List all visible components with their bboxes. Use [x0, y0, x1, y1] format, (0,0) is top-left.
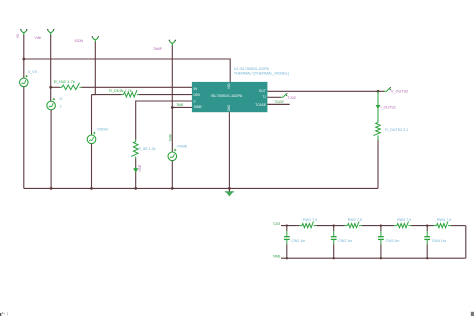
svg-text:RW2 7.5: RW2 7.5 — [348, 218, 362, 222]
svg-text:ISL75051S-102PA: ISL75051S-102PA — [211, 93, 243, 98]
svg-text:TAMB: TAMB — [169, 134, 173, 142]
wire U1 GND leg — [228, 112, 230, 188]
node TAMP terminal flag — [169, 40, 176, 46]
svg-text:TJ02: TJ02 — [287, 95, 296, 100]
wire thermal top rail seg1 — [317, 225, 345, 227]
wire R_OUTS2 upper lead — [377, 91, 379, 122]
vsource VTAMB — [168, 149, 177, 161]
capacitor CW2 — [331, 226, 337, 259]
wire W1 upper — [23, 35, 25, 78]
wire thermal top rail seg0 — [281, 225, 299, 227]
svg-text:VDDIN: VDDIN — [74, 38, 83, 43]
resistor RW1 — [302, 221, 313, 227]
svg-text:DEN: DEN — [194, 93, 200, 97]
wire RW3 lead L — [394, 225, 397, 227]
smudge bottom-left — [0, 312, 8, 316]
svg-text:R_IN2 1.7k: R_IN2 1.7k — [54, 79, 75, 84]
svg-text:TCASE: TCASE — [273, 222, 280, 226]
node V_OUTS2 flag — [384, 87, 391, 91]
junction bus/W1 — [22, 58, 25, 61]
junction bottom rail c2 — [333, 257, 335, 259]
junction VTAMB/rail — [171, 187, 174, 190]
wire R_IN2 left lead-in — [51, 86, 60, 88]
wire W2 upper — [50, 35, 52, 102]
junction bottom rail c4 — [426, 257, 428, 259]
capacitor CW1 — [284, 226, 290, 259]
resistor R_OUTS2 — [373, 123, 380, 136]
resistor RW3 — [397, 221, 408, 227]
probe arrow ISE — [134, 167, 138, 171]
wire R_DDIN green lead R — [137, 94, 139, 96]
resistor RW2 — [348, 221, 359, 227]
vsource VDDIN — [87, 132, 96, 144]
wire IN net — [82, 86, 193, 88]
svg-text:CW2 1m: CW2 1m — [338, 239, 352, 243]
wire ground rail — [24, 187, 378, 189]
wire RW1 lead L — [299, 225, 302, 227]
resistor R_SE — [131, 142, 138, 157]
junction OUT/R_OUTS2 — [377, 90, 380, 93]
probe arrow I_OUTS2 — [376, 104, 379, 108]
node VINI terminal flag — [47, 29, 54, 35]
svg-text:CW1 1m: CW1 1m — [291, 239, 305, 243]
svg-text:V2: V2 — [59, 97, 62, 101]
wire S net — [136, 100, 193, 102]
wire RW2 lead L — [345, 225, 348, 227]
svg-text:VTAMB: VTAMB — [177, 144, 187, 149]
wire thermal bottom rail — [281, 257, 466, 259]
capacitor CW4 — [424, 226, 430, 259]
junction bottom rail c3 — [380, 257, 382, 259]
wire bus drop to U1 VDD pin — [229, 59, 231, 83]
wire R_IN2 green lead R — [80, 86, 82, 88]
svg-text:R_OUTS2 2.1: R_OUTS2 2.1 — [385, 127, 409, 132]
svg-text:RW4 7.5: RW4 7.5 — [437, 218, 451, 222]
junction bottom rail c1 — [286, 257, 288, 259]
wire R_SE green lead T — [135, 140, 137, 142]
wire DEN net right — [139, 94, 192, 96]
svg-text:TJ: TJ — [262, 95, 266, 99]
svg-text:THERMAL={THERMAL_MODEL}: THERMAL={THERMAL_MODEL} — [234, 71, 290, 75]
wire TAMB pin net — [172, 106, 192, 108]
svg-text:I_OUTS2: I_OUTS2 — [381, 104, 397, 109]
wire RW2 lead R — [359, 225, 362, 227]
wire DEN net left — [92, 94, 122, 96]
ground symbol — [225, 188, 234, 196]
wire W3 jog — [92, 94, 96, 96]
svg-text:CW3 1m: CW3 1m — [386, 239, 400, 243]
svg-text:OUT: OUT — [259, 89, 267, 93]
wire R_SE lower — [135, 159, 137, 189]
wire W3 lower — [91, 144, 93, 189]
svg-text:TAMB: TAMB — [273, 254, 280, 258]
svg-text:R_SE 1.2k: R_SE 1.2k — [138, 146, 155, 151]
svg-text:VDD: VDD — [227, 83, 231, 89]
svg-text:GND: GND — [227, 104, 231, 111]
svg-text:VS: VS — [15, 34, 20, 39]
svg-text:VDDIn: VDDIn — [97, 126, 108, 131]
svg-text:TCASE: TCASE — [274, 100, 284, 104]
junction rail W2 — [50, 187, 53, 190]
wire R_SE green lead B — [135, 157, 137, 159]
wire top bus — [24, 58, 230, 60]
node VS terminal flag — [20, 29, 27, 35]
svg-text:RW3 7.5: RW3 7.5 — [397, 218, 411, 222]
wire RW4 lead L — [434, 225, 437, 227]
wire TJ stub — [267, 96, 281, 98]
wire thermal right edge — [465, 226, 467, 259]
resistor R_IN2 — [62, 83, 80, 90]
wire thermal top rail seg2 — [362, 225, 394, 227]
junction top rail c4 — [426, 224, 428, 226]
wire R_OUTS2 lower lead — [377, 136, 379, 141]
wire thermal top rail seg3 — [412, 225, 434, 227]
node TJ02 flag — [281, 93, 288, 97]
wire R_IN2 green lead L — [60, 86, 62, 88]
svg-text:TAMB: TAMB — [176, 103, 184, 107]
wire W2 lower — [50, 110, 52, 189]
junction top rail c2 — [333, 224, 335, 226]
svg-text:ISE: ISE — [138, 164, 142, 172]
wire TAMP vertical — [171, 45, 173, 152]
wire R_OUTS2 to rail — [377, 140, 379, 188]
vsource V_VS — [20, 75, 29, 87]
vsource V2 — [47, 98, 56, 110]
wire R_DDIN green lead L — [122, 94, 124, 96]
wire RW4 lead R — [448, 225, 451, 227]
junction GND/rail — [228, 187, 231, 190]
junction top rail c1 — [286, 224, 288, 226]
wire TCASE stub — [267, 103, 289, 105]
junction rail W3 — [90, 187, 93, 190]
junction top rail c3 — [380, 224, 382, 226]
wire thermal top rail seg4 — [451, 225, 466, 227]
svg-text:R_DDIN 1.7k: R_DDIN 1.7k — [109, 89, 132, 93]
smudge bottom-right — [471, 312, 474, 316]
wire W3 mid — [91, 95, 93, 136]
wire OUT net — [267, 90, 384, 92]
svg-text:TAMB: TAMB — [194, 105, 202, 109]
junction TAMB pin wire — [171, 106, 174, 109]
resistor R_DDIN — [124, 90, 137, 97]
svg-text:CW4 1m: CW4 1m — [432, 239, 446, 243]
wire VTAMB lower — [171, 161, 173, 189]
wire W1 lower — [23, 87, 25, 189]
svg-text:IN: IN — [194, 87, 198, 91]
svg-text:V_VS: V_VS — [28, 69, 37, 74]
capacitor CW3 — [378, 226, 384, 259]
junction W2/R_IN2 wire — [49, 86, 52, 89]
resistor RW4 — [437, 221, 448, 227]
svg-text:TAMP: TAMP — [153, 46, 162, 51]
junction R_SE/rail — [134, 187, 137, 190]
svg-text:RW1 7.5: RW1 7.5 — [303, 218, 317, 222]
op-amp U1 body — [192, 82, 268, 112]
svg-text:TCASE: TCASE — [255, 103, 266, 107]
wire RW1 lead R — [314, 225, 317, 227]
svg-text:V_OUTS2: V_OUTS2 — [391, 88, 409, 93]
svg-text:VINI: VINI — [35, 35, 42, 40]
svg-text:U1 ISL75051S-102PA: U1 ISL75051S-102PA — [234, 67, 270, 71]
wire RW3 lead R — [409, 225, 412, 227]
wire R_SE upper — [135, 101, 137, 140]
node VDDIN terminal flag — [92, 36, 99, 42]
wire W3 upper — [94, 42, 96, 95]
svg-text:2: 2 — [60, 104, 62, 108]
